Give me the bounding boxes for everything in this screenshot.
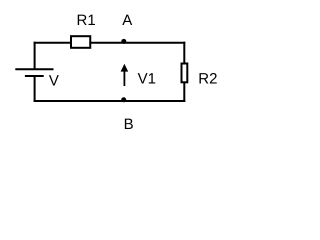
svg-text:B: B <box>124 116 134 133</box>
svg-text:A: A <box>122 12 132 29</box>
wire: left side upper segment (top corner down to battery top plate) <box>34 42 36 69</box>
wire: left side lower segment (battery bottom plate down to bottom corner) <box>34 76 36 102</box>
resistor R2 <box>182 64 188 83</box>
svg-text:R2: R2 <box>198 70 217 87</box>
wire: top side from left corner to right corner <box>34 42 186 44</box>
node A (junction dot) <box>121 39 126 44</box>
wire: right side from top corner to bottom corner <box>183 42 185 102</box>
node B (junction dot) <box>121 97 126 102</box>
wire: bottom side from left corner to right corner <box>34 100 186 102</box>
battery V <box>15 69 53 76</box>
resistor R1 <box>71 36 90 48</box>
svg-text:V: V <box>49 72 59 89</box>
voltage arrow V1 <box>121 64 129 86</box>
svg-text:V1: V1 <box>138 70 156 87</box>
svg-text:R1: R1 <box>77 12 96 29</box>
